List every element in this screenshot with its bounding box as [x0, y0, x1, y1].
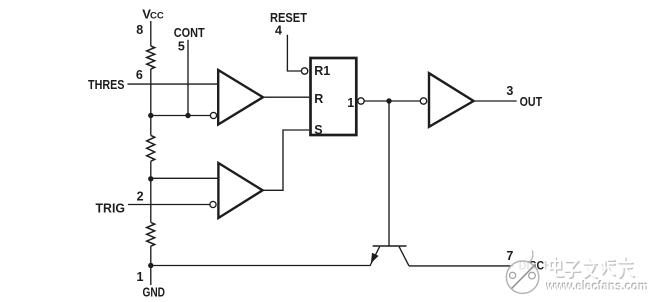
wire RC to ground node: [150, 246, 152, 265]
wire CONT: [187, 40, 189, 116]
wire U2 output to latch S input: [263, 130, 309, 190]
svg-text:TRIG: TRIG: [96, 202, 126, 216]
transistor Q1 emitter arrow: [371, 253, 378, 262]
wire node A to resistor RB: [150, 116, 152, 136]
wire node B to comparator U2 noninverting input: [151, 177, 219, 179]
svg-text:1: 1: [347, 96, 354, 110]
svg-text:8: 8: [136, 23, 143, 37]
svg-text:6: 6: [136, 68, 143, 82]
wire TRIG to U2 inverting input: [128, 204, 210, 206]
svg-text:THRES: THRES: [88, 78, 125, 92]
svg-text:OUT: OUT: [520, 95, 543, 109]
svg-text:R: R: [314, 92, 323, 106]
wire ground rail to transistor emitter: [151, 265, 370, 267]
resistor RB: [147, 135, 155, 161]
transistor Q1 base bar: [373, 245, 407, 247]
wire THRES: [128, 83, 219, 85]
wire node B to resistor RC: [150, 179, 152, 223]
svg-text:www.elecfans.com: www.elecfans.com: [546, 279, 649, 294]
net label VCC: [142, 6, 164, 21]
svg-text:CC: CC: [150, 11, 164, 22]
resistor RA: [147, 46, 155, 69]
wire RB to node B: [150, 161, 152, 179]
svg-text:5: 5: [178, 40, 185, 54]
wire ground stub: [150, 266, 152, 286]
wire output node to transistor base: [388, 101, 390, 246]
svg-text:7: 7: [506, 249, 513, 263]
junction CONT node: [185, 113, 190, 118]
wire RESET to latch R1 input: [287, 35, 301, 71]
svg-text:1: 1: [137, 270, 144, 284]
wire U1 output to latch R input: [264, 96, 310, 98]
junction node B: [148, 176, 153, 181]
wire buffer output to OUT: [474, 100, 517, 102]
wire node A to comparator U1 inverting input: [151, 115, 211, 117]
comparator U2: [218, 163, 262, 218]
junction output node: [386, 98, 391, 103]
svg-text:3: 3: [506, 84, 513, 98]
inversion bubble buffer input: [420, 98, 426, 104]
svg-text:2: 2: [137, 190, 144, 204]
inversion bubble R1 input: [301, 68, 307, 74]
inversion bubble latch output: [358, 98, 364, 104]
junction node A: [148, 113, 153, 118]
wire collector to DISCH pin 7: [409, 265, 514, 267]
output buffer U4: [429, 73, 474, 127]
watermark logo circle: [506, 251, 538, 294]
svg-text:CONT: CONT: [174, 26, 205, 40]
wire VCC to resistor RA: [150, 21, 152, 46]
wire RA to node A: [150, 69, 152, 116]
inversion bubble U1 input: [210, 112, 216, 118]
junction ground node: [148, 263, 153, 268]
svg-text:S: S: [314, 123, 322, 137]
resistor RC: [147, 222, 155, 246]
wire latch output to buffer input: [364, 100, 420, 102]
svg-text:4: 4: [275, 24, 282, 38]
comparator U1: [218, 70, 263, 125]
latch U3 box: [311, 58, 357, 135]
svg-text:R1: R1: [314, 64, 330, 78]
transistor Q1 collector: [399, 247, 409, 266]
watermark text elecfans: [544, 256, 649, 294]
inversion bubble U2 input: [210, 201, 216, 207]
transistor Q1 emitter: [370, 247, 380, 266]
svg-text:GND: GND: [143, 286, 166, 300]
